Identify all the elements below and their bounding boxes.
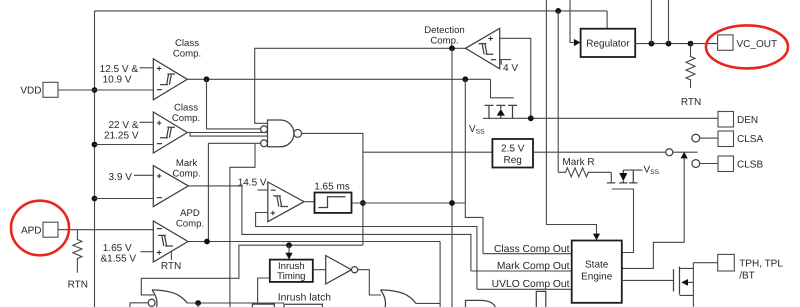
wire inrush latch S input — [258, 278, 270, 304]
svg-text:Timing: Timing — [277, 271, 305, 282]
wire NAND hairpin to inrush — [141, 245, 363, 295]
svg-text:VDD: VDD — [20, 85, 41, 96]
pin DEN — [718, 112, 758, 128]
svg-text:4 V: 4 V — [503, 63, 518, 74]
node OR output junction — [195, 300, 201, 306]
wire state engine up arrow to class line — [622, 152, 688, 269]
svg-text:Comp.: Comp. — [172, 169, 200, 180]
svg-text:−: − — [270, 186, 276, 197]
wire OR bubble input from bottom — [130, 303, 148, 307]
gate inverter after inrush timing — [313, 256, 381, 296]
svg-text:VC_OUT: VC_OUT — [737, 39, 778, 50]
wire rail 546 from top — [546, 0, 596, 235]
net VSS label at Q1 — [469, 124, 485, 136]
svg-text:DEN: DEN — [737, 115, 758, 126]
svg-text:10.9 V: 10.9 V — [103, 75, 132, 86]
comparator Class Comp 2 — [95, 103, 201, 153]
node DEN rail junction — [528, 115, 534, 121]
wire regulator feed from top rail — [606, 11, 608, 29]
net VSS label at Q2 — [644, 165, 660, 177]
block latch box 1 — [252, 304, 274, 307]
block 2.5 V Reg — [492, 139, 533, 168]
wire VDD rail vertical — [94, 11, 96, 307]
wire Mark Comp Out into state engine — [471, 270, 572, 272]
pin VC_OUT — [718, 35, 777, 50]
svg-text:Class: Class — [175, 38, 199, 49]
wire detection plus input to DEN rail — [500, 38, 531, 118]
wire class out branch down to one-shot jog — [465, 79, 483, 253]
gate OR bottom middle — [381, 290, 416, 307]
svg-text:TPH, TPL: TPH, TPL — [739, 258, 783, 269]
resistor APD RTN — [68, 230, 88, 291]
svg-text:&1.55 V: &1.55 V — [101, 253, 137, 264]
block State Engine — [572, 241, 622, 303]
svg-text:12.5 V &: 12.5 V & — [100, 64, 139, 75]
svg-text:Comp.: Comp. — [430, 36, 458, 47]
value label 22 V & 21.25 V — [104, 120, 139, 142]
label UVLO Comp Out — [492, 279, 570, 290]
wire 2.5V reg output to class pins — [533, 151, 698, 153]
block latch box 2 — [284, 304, 322, 307]
svg-text:Class Comp Out: Class Comp Out — [494, 244, 570, 255]
comparator APD Comp — [141, 208, 205, 272]
reference 4 V at detection minus — [500, 60, 519, 75]
svg-text:−: − — [491, 55, 497, 66]
svg-text:Inrush latch: Inrush latch — [278, 293, 332, 304]
node detection output junction — [449, 45, 455, 51]
wire UVLO Comp Out into state engine — [477, 288, 572, 290]
svg-text:+: + — [157, 171, 162, 181]
label 14.5 V — [238, 177, 267, 188]
svg-text:State: State — [585, 260, 609, 271]
comparator 14.5V timing comp — [258, 182, 305, 222]
svg-text:Comp.: Comp. — [173, 49, 201, 60]
node mark minus junction — [92, 196, 98, 202]
svg-text:Comp.: Comp. — [176, 219, 204, 230]
value label 3.9 V — [109, 172, 133, 183]
svg-text:Regulator: Regulator — [586, 38, 630, 49]
svg-text:/BT: /BT — [739, 270, 755, 281]
svg-text:3.9 V: 3.9 V — [109, 172, 133, 183]
svg-text:+: + — [157, 248, 162, 258]
node reg out junction 1 — [649, 41, 655, 47]
svg-text:21.25 V: 21.25 V — [104, 130, 139, 141]
wire arrow into Inrush Timing — [285, 245, 292, 259]
wire from top at 668 — [668, 0, 670, 44]
wire staple bottom — [536, 291, 546, 307]
block one-shot 1.65 ms — [315, 193, 352, 213]
svg-text:Engine: Engine — [581, 272, 613, 283]
svg-text:−: − — [157, 224, 163, 235]
node one-shot line junction at detection vertical — [449, 200, 455, 206]
svg-text:−: − — [157, 139, 163, 150]
svg-text:−: − — [157, 193, 163, 204]
wire from top at 651 — [650, 0, 652, 44]
wire DEN rail — [483, 117, 718, 119]
svg-text:1.65 V: 1.65 V — [103, 243, 132, 254]
node reg out junction 2 — [666, 41, 672, 47]
svg-text:Mark R: Mark R — [562, 157, 594, 168]
wire regulator output — [635, 43, 717, 45]
svg-text:1.65 ms: 1.65 ms — [314, 181, 350, 192]
svg-text:22 V &: 22 V & — [108, 120, 138, 131]
svg-text:CLSB: CLSB — [737, 160, 763, 171]
svg-text:APD: APD — [180, 208, 200, 219]
transistor Q2 mark MOSFET — [607, 170, 643, 252]
node inrush timing feed junction — [286, 242, 292, 248]
svg-text:+: + — [488, 34, 493, 44]
value label 12.5 V & 10.9 V — [100, 64, 139, 86]
transistor Q1 detection MOSFET — [485, 79, 518, 118]
pin APD — [21, 222, 153, 237]
wire stub below OR output junction — [197, 303, 199, 307]
pin CLSB — [692, 156, 764, 172]
svg-text:RTN: RTN — [161, 261, 181, 272]
svg-text:+: + — [270, 208, 275, 218]
svg-text:APD: APD — [21, 225, 42, 236]
svg-text:+: + — [157, 118, 162, 128]
svg-text:+: + — [157, 64, 162, 74]
block Inrush Timing — [270, 260, 313, 283]
wire mark comp output down — [188, 186, 471, 271]
annotation red ellipse APD — [11, 201, 69, 256]
pin VDD — [20, 82, 153, 97]
svg-text:Mark Comp Out: Mark Comp Out — [497, 261, 570, 272]
wire APD comp output — [188, 241, 440, 243]
comparator Class Comp 1 — [140, 38, 202, 100]
wire top rail horizontal — [95, 10, 608, 12]
arrowhead into regulator — [574, 39, 581, 46]
wire rail down to Mark R — [557, 11, 559, 172]
wire APD line down to OR output — [439, 242, 441, 307]
label Class Comp Out — [494, 244, 570, 255]
node class out branch junction — [462, 76, 468, 82]
svg-text:−: − — [157, 85, 163, 96]
label Mark Comp Out — [497, 261, 570, 272]
wire regulator input from top — [570, 0, 574, 43]
wire class1 output — [187, 78, 490, 80]
pin CLSA — [692, 131, 764, 147]
svg-text:2.5 V: 2.5 V — [501, 143, 525, 154]
wire OR2 output to APD vertical — [416, 302, 440, 304]
arrowhead into state engine top — [593, 234, 600, 241]
node NAND output / one-shot junction — [360, 200, 366, 206]
wire 14.5 comp plus feedback — [256, 213, 477, 290]
node class1 output junction — [204, 76, 210, 82]
svg-text:Reg: Reg — [504, 155, 522, 166]
svg-text:CLSA: CLSA — [737, 134, 763, 145]
comparator Detection Comp — [424, 25, 499, 69]
node VDD junction — [92, 87, 98, 93]
wire detection output to NAND input 1 — [255, 48, 466, 123]
wire Class Comp Out into state engine — [483, 253, 572, 255]
node VC_OUT resistor junction — [688, 41, 694, 47]
svg-text:Detection: Detection — [424, 25, 465, 36]
wire class bus into 2.5V reg — [363, 151, 493, 153]
label 1.65 ms — [314, 181, 350, 192]
value label 1.65 V &1.55 V — [101, 243, 137, 264]
wire class1 to NAND bubble input — [207, 79, 261, 129]
gate AND bottom right partial — [466, 300, 496, 307]
gate OR inrush latch feedback — [148, 290, 187, 307]
svg-text:Mark: Mark — [176, 158, 198, 169]
block Regulator — [581, 29, 636, 57]
svg-text:Comp.: Comp. — [172, 113, 200, 124]
node APD output junction — [204, 239, 210, 245]
wire NAND output — [302, 133, 363, 245]
wire comp to one-shot — [304, 201, 314, 203]
node class2 minus junction — [92, 142, 98, 148]
node open circle on class line — [666, 149, 673, 156]
node top rail junction — [555, 8, 561, 14]
pin TPH TPL BT — [718, 254, 784, 281]
wire class2 output to NAND inputs — [187, 133, 267, 137]
svg-text:RTN: RTN — [68, 280, 88, 291]
wire OR output — [187, 302, 284, 304]
resistor VC_OUT RTN — [681, 44, 701, 108]
wire detection vertical — [451, 48, 453, 307]
svg-text:UVLO Comp Out: UVLO Comp Out — [492, 279, 570, 290]
gate NAND U1 — [261, 120, 302, 147]
transistor Q3 hotswap MOSFET — [622, 263, 718, 307]
svg-text:Class: Class — [174, 103, 198, 114]
resistor Mark R — [558, 157, 611, 177]
annotation red ellipse VC_OUT — [706, 25, 788, 68]
wire APD up to NAND bubble input — [208, 143, 260, 241]
label Inrush latch — [278, 293, 332, 304]
svg-text:RTN: RTN — [681, 97, 701, 108]
wire one-shot output — [352, 202, 466, 204]
comparator Mark Comp — [95, 158, 201, 207]
wire NAND lower bubble branch down — [230, 143, 255, 307]
